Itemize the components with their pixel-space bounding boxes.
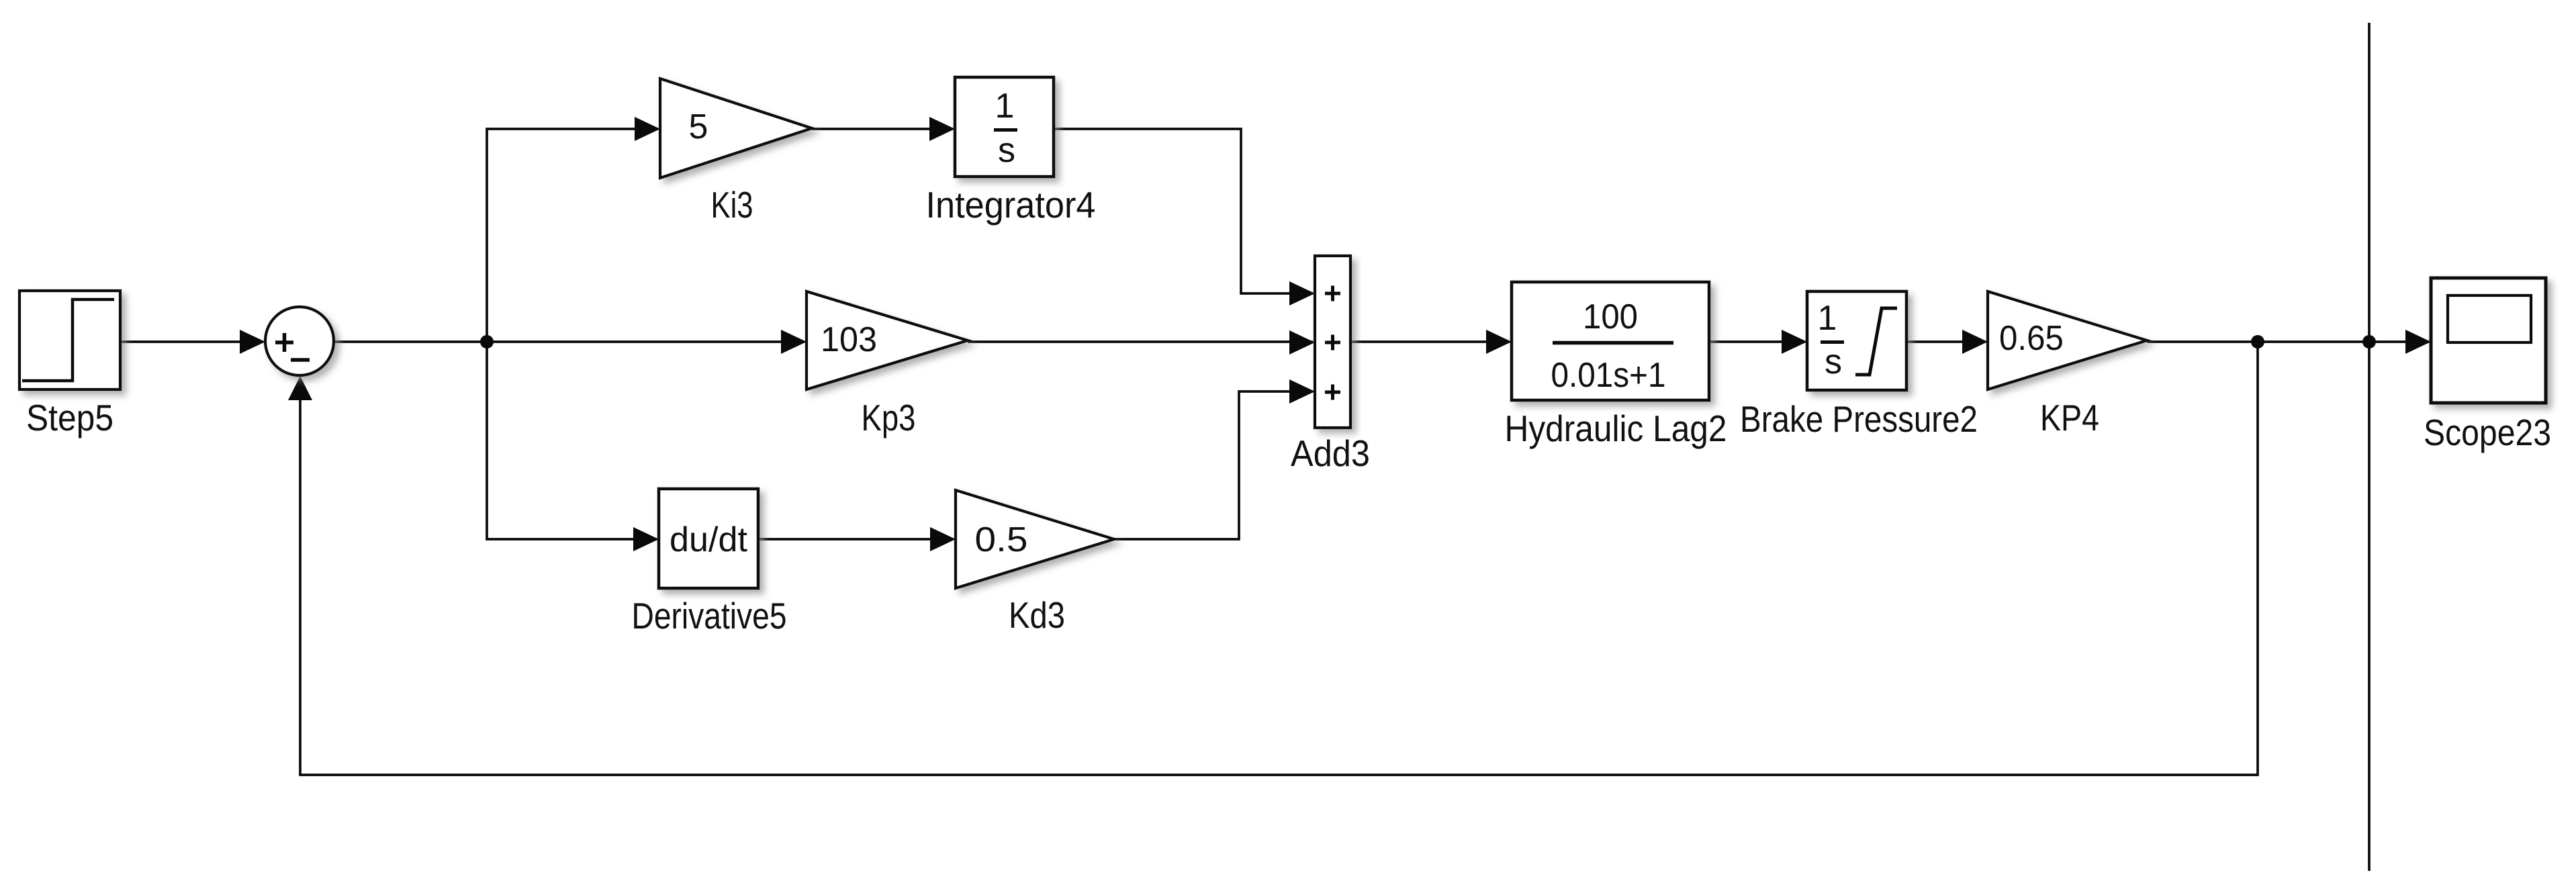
- svg-text:Step5: Step5: [26, 397, 113, 438]
- block Scope23: [2431, 278, 2546, 403]
- svg-text:s: s: [998, 131, 1015, 170]
- svg-text:0.65: 0.65: [1999, 319, 2064, 358]
- block Brake Pressure2 (limited integrator): [1807, 291, 1906, 390]
- node junction dot on tall line: [2362, 335, 2376, 348]
- wire Brake Pressure2 to KP4: [1906, 340, 1986, 343]
- block Step5: [19, 291, 120, 389]
- wire Step5 to Sum: [120, 340, 263, 343]
- svg-text:Derivative5: Derivative5: [632, 595, 787, 637]
- svg-text:Hydraulic Lag2: Hydraulic Lag2: [1505, 408, 1727, 449]
- block Hydraulic Lag2 (transfer fcn): [1512, 282, 1709, 400]
- wire Ki3 to Integrator4: [812, 128, 953, 130]
- svg-text:0.5: 0.5: [975, 520, 1028, 559]
- wire Kp3 to Add3 input 2: [968, 340, 1313, 343]
- gain Ki3: [660, 79, 812, 178]
- wire Hydraulic Lag2 to Brake Pressure2: [1709, 340, 1805, 343]
- sum block Sum (+-): [265, 307, 334, 375]
- wire branch up to Ki3: [487, 129, 658, 342]
- block Derivative5: [659, 489, 758, 588]
- gain Kd3: [956, 490, 1114, 588]
- wire Sum to Kp3: [334, 340, 804, 343]
- svg-text:du/dt: du/dt: [670, 520, 748, 559]
- svg-text:Kp3: Kp3: [862, 397, 916, 438]
- wire branch down to Derivative5: [487, 342, 657, 539]
- svg-text:s: s: [1825, 342, 1842, 381]
- svg-text:1: 1: [1818, 299, 1837, 338]
- wire Add3 to Hydraulic Lag2: [1350, 340, 1510, 343]
- svg-text:100: 100: [1583, 297, 1638, 336]
- svg-text:Ki3: Ki3: [711, 184, 753, 226]
- svg-text:KP4: KP4: [2040, 397, 2099, 438]
- svg-text:Brake Pressure2: Brake Pressure2: [1740, 398, 1978, 440]
- gain KP4: [1988, 291, 2147, 389]
- svg-text:5: 5: [689, 107, 708, 146]
- node junction dot left: [480, 335, 494, 348]
- wire Derivative5 to Kd3: [758, 538, 954, 541]
- svg-text:Integrator4: Integrator4: [926, 184, 1096, 226]
- wire Integrator4 to Add3 input 1: [1054, 129, 1313, 293]
- svg-text:Kd3: Kd3: [1009, 594, 1065, 636]
- wire feedback from junction to Sum bottom: [300, 342, 2258, 775]
- wire Kd3 to Add3 input 3: [1114, 391, 1313, 539]
- node junction dot feedback: [2251, 335, 2264, 348]
- block Integrator4: [955, 77, 1054, 177]
- wire KP4 to Scope23: [2147, 340, 2429, 343]
- block Add3: [1315, 256, 1350, 428]
- svg-text:103: 103: [821, 320, 877, 359]
- svg-text:1: 1: [995, 87, 1015, 126]
- svg-text:Scope23: Scope23: [2424, 412, 2551, 453]
- svg-text:Add3: Add3: [1291, 432, 1370, 474]
- wire tall vertical line right: [2368, 23, 2371, 871]
- svg-text:0.01s+1: 0.01s+1: [1551, 356, 1666, 395]
- gain Kp3: [807, 291, 968, 389]
